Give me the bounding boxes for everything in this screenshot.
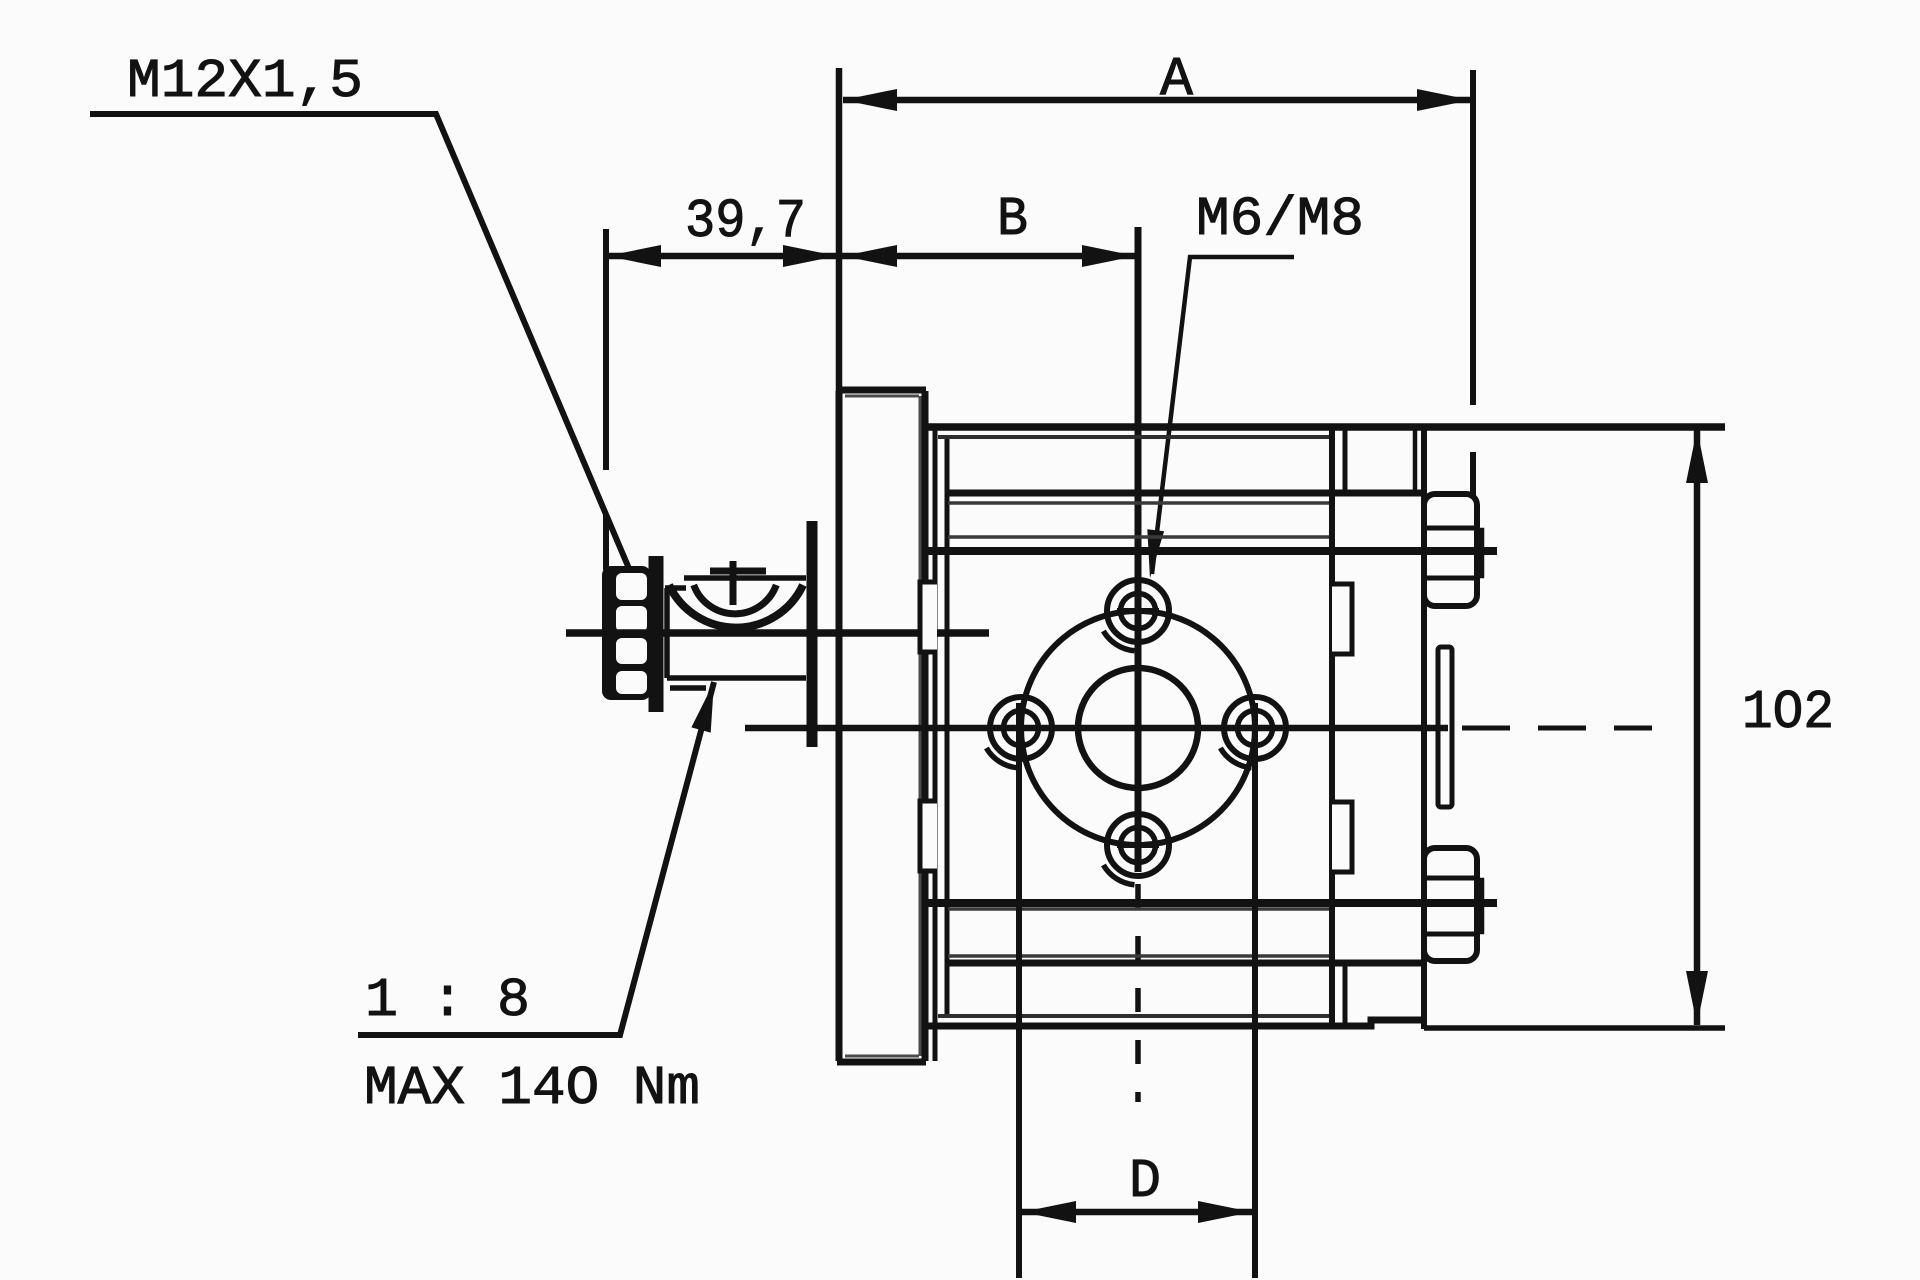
dimension line D [1022,1209,1252,1216]
flange inner bevel lines [845,396,920,1056]
arrow 39,7 right [783,245,837,267]
seal tab front lower [920,801,937,871]
svg-text:M12X1,5: M12X1,5 [127,50,363,113]
rear cover boundary [1329,424,1335,1029]
body line upper thick [945,490,1424,497]
svg-text:B: B [997,188,1028,251]
washer [649,556,664,712]
arrow 39,7 left [607,245,661,267]
shaft centerline [566,629,989,637]
shaft (1:8 taper) [665,578,806,688]
body line below bottom bolt thin [948,907,1332,911]
body inner bottom line [938,1014,1332,1018]
svg-text:M6/M8: M6/M8 [1196,188,1364,251]
dimension line A [843,97,1471,104]
rear bolt top [1424,494,1477,606]
bolt hole top (M6/M8) [1107,580,1169,642]
extension line D left [1016,703,1022,1278]
nut M12 [602,566,651,700]
flange bolt circle [1021,611,1255,845]
body line through top rear bolt [925,547,1497,555]
arrow A right [1417,89,1471,111]
arrow D left [1022,1201,1076,1223]
arrow B left [843,245,897,267]
svg-text:MAX 14O Nm: MAX 14O Nm [364,1057,700,1120]
svg-text:1O2: 1O2 [1742,681,1834,744]
flange top edge [837,387,926,394]
body bottom edge [926,1020,1424,1026]
arrow 102 top [1686,429,1708,483]
arrow D right [1198,1201,1252,1223]
woodruff key outer arc [669,585,803,628]
seal tab rear upper [1332,584,1352,654]
dimension line 102 [1694,429,1701,1025]
svg-text:1 : 8: 1 : 8 [365,969,530,1032]
bolt hole right [1224,697,1286,759]
leader M6/M8 [1152,257,1294,574]
leader M12X1,5 [90,114,633,578]
body top edge + 102 extension [926,423,1725,431]
dashed centerline right [1462,726,1652,731]
extension line D right [1252,703,1258,1278]
body line above top bolt thin [948,535,1332,539]
dimension line 39,7 / B [607,253,1136,260]
flange bottom edge [837,1059,926,1066]
bolt hole left [990,697,1052,759]
horizontal centerline of bolt circle [745,725,1448,732]
arrow 1 : 8 [691,682,714,733]
hub [807,521,818,747]
rear cover right edge [1421,424,1427,1029]
body line lower thin [948,954,1332,958]
arrow A left [843,89,897,111]
body inner top line [938,435,1332,439]
body line lower thick [945,960,1424,967]
arrow M6/M8 [1147,529,1164,578]
body line upper thin [948,501,1332,505]
arrow B right [1082,245,1136,267]
arrow 102 bottom [1686,971,1708,1025]
flange right edge [922,391,929,1061]
svg-text:39,7: 39,7 [685,190,806,253]
rear cover inner top edge [1413,428,1418,492]
mounting flange left face / extension line [836,68,843,391]
leader 1 : 8 [358,682,714,1035]
centre hole [1078,668,1198,788]
extension line 39,7 left [603,229,609,570]
rear cover inner verticals [1343,428,1348,1026]
extension line A right [1470,70,1476,497]
body line through bottom rear bolt [925,899,1497,907]
vertical centerline of flange bolt circle [1135,227,1142,872]
102 bottom extension [1424,1025,1725,1031]
rear bolt bottom [1424,848,1477,961]
rear centre boss [1438,647,1452,807]
seal tab rear lower [1332,802,1352,872]
svg-text:D: D [1129,1150,1161,1213]
woodruff key inner arc [694,585,777,614]
bolt hole bottom [1107,814,1169,876]
seal tab front upper [920,582,937,652]
flange inner edge [933,427,938,1061]
key centre cross [710,561,766,605]
body front face [945,437,950,1017]
